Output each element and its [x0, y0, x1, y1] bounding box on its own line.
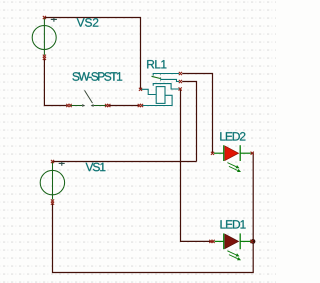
LED2 pin right	[251, 152, 254, 155]
wire switch right to relay coil pin B	[109, 105, 139, 107]
VS2 plus mark	[51, 18, 57, 22]
switch right contact arrow	[91, 104, 94, 107]
relay pin coil A	[139, 88, 142, 91]
VS1 plus mark	[59, 162, 65, 166]
LED2 light arrow 2	[229, 166, 238, 170]
voltage source VS2	[32, 18, 56, 55]
relay pin common	[179, 87, 182, 90]
wire LED1 cathode to junction	[251, 240, 253, 242]
switch pin left	[66, 104, 71, 107]
relay common contact line	[153, 84, 179, 89]
LED1 cathode bar	[239, 233, 241, 249]
relay coil pin B lead	[142, 95, 172, 105]
wire VS1+ to node	[53, 161, 197, 163]
LED1 anode lead	[215, 240, 224, 242]
LED1 pin left	[209, 240, 214, 243]
wire VS2+ to relay coil pin A	[44, 18, 140, 90]
SW-SPST1 label	[72, 72, 122, 81]
LED1	[209, 233, 253, 260]
VS1 pin bottom	[51, 199, 54, 204]
VS1 label	[86, 163, 106, 172]
switch right lead	[94, 105, 107, 107]
LED1 light arrow 2	[229, 255, 238, 259]
LED1 anode bar	[223, 233, 225, 249]
switch left contact arrow	[82, 104, 85, 107]
relay RL1	[138, 72, 182, 107]
VS2 pin bottom	[43, 55, 46, 60]
relay coil pin A lead	[141, 89, 156, 94]
switch left lead	[71, 105, 83, 107]
VS2 pin top	[43, 16, 46, 19]
LED2 triangle	[225, 146, 239, 161]
wire relay throw2 to VS1+ node	[182, 82, 196, 162]
LED2 light arrow 1	[227, 163, 236, 167]
LED2 label	[220, 132, 245, 140]
LED2 cathode lead	[240, 152, 251, 154]
LED1 light arrow 1	[227, 251, 236, 255]
RL1 label	[147, 60, 166, 68]
wire LED2 cathode down to junction	[251, 153, 253, 241]
wire relay throw1 to LED2 anode	[182, 74, 212, 154]
wire VS1- bottom return to junction	[53, 203, 254, 272]
wire relay common pin to LED1 anode	[181, 89, 211, 241]
LED2	[211, 145, 254, 172]
relay pin throw2	[179, 80, 182, 83]
LED1 triangle	[225, 234, 239, 249]
relay coil	[156, 87, 165, 104]
relay pin coil B	[138, 104, 143, 107]
relay blade	[152, 76, 161, 78]
LED1 label	[221, 220, 246, 228]
relay pin throw1	[179, 72, 182, 75]
LED2 pin left	[211, 152, 214, 155]
VS1 pin top	[51, 160, 54, 163]
LED2 cathode bar	[239, 145, 241, 161]
wire VS2- to switch left	[44, 59, 66, 106]
relay throw2 contact line	[161, 79, 179, 82]
relay dashed link	[160, 74, 162, 87]
voltage source VS1	[40, 162, 64, 200]
switch blade	[85, 90, 93, 103]
LED1 pin right	[250, 240, 253, 243]
switch SW-SPST1	[66, 90, 110, 107]
junction dot	[251, 239, 256, 244]
LED1 cathode lead	[240, 240, 251, 242]
LED2 anode bar	[223, 145, 225, 161]
switch pin right	[105, 104, 110, 107]
relay throw1 contact line	[153, 74, 179, 76]
LED2 anode lead	[214, 152, 224, 154]
VS2 label	[77, 18, 99, 27]
